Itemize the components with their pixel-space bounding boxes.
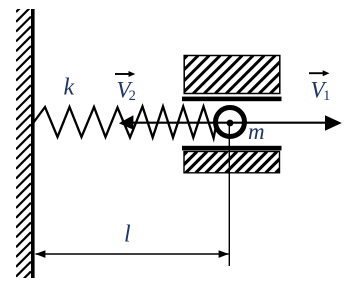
label V1 with vector arrow	[309, 70, 330, 104]
svg-text:V1: V1	[311, 78, 331, 105]
bottom guide block	[166, 146, 297, 173]
wall	[16, 0, 35, 286]
spring k	[34, 107, 216, 139]
node right arrowhead (V1 direction)	[325, 115, 342, 131]
svg-text:l: l	[124, 222, 131, 248]
svg-text:k: k	[64, 75, 75, 101]
svg-text:V2: V2	[117, 77, 136, 104]
mass m circle	[216, 108, 245, 137]
top guide block	[149, 56, 319, 102]
node left arrowhead (V2 direction)	[119, 115, 133, 130]
wire vertical reference line from mass center	[228, 123, 230, 266]
wire main horizontal line through mass	[121, 122, 338, 124]
label V2 with vector arrow	[115, 71, 136, 104]
svg-text:m: m	[248, 119, 265, 144]
dimension line l	[35, 250, 229, 258]
